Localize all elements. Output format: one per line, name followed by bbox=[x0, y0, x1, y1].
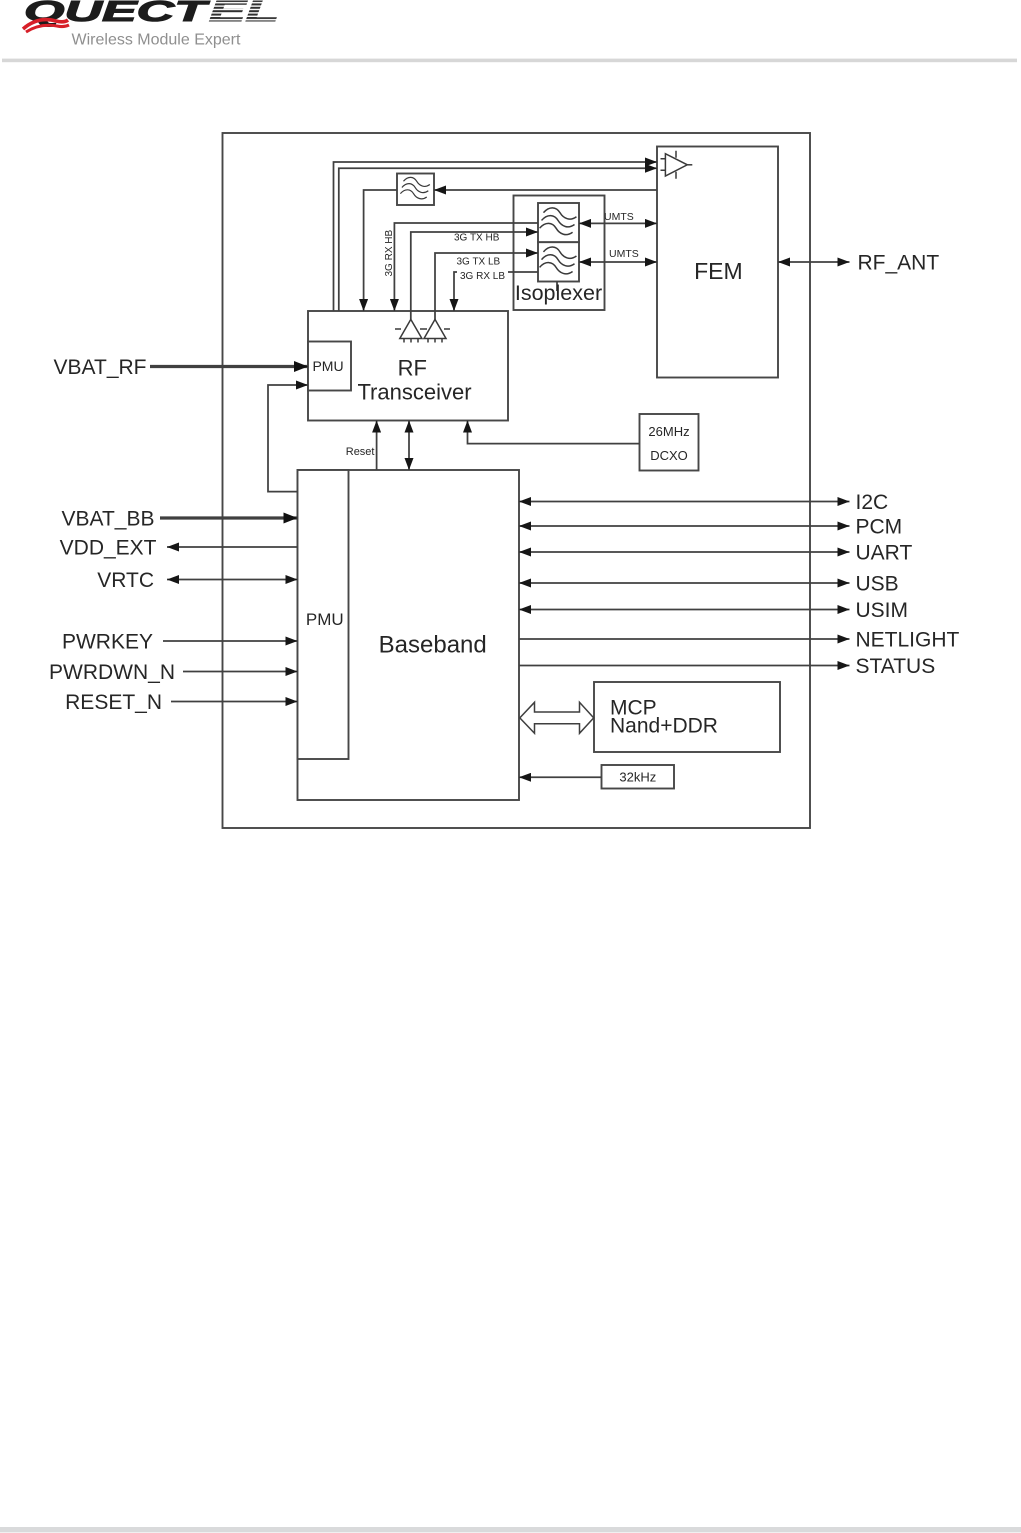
svg-text:VDD_EXT: VDD_EXT bbox=[60, 537, 157, 560]
svg-text:PWRKEY: PWRKEY bbox=[62, 631, 153, 654]
svg-text:UMTS: UMTS bbox=[609, 248, 639, 260]
svg-text:Transceiver: Transceiver bbox=[357, 380, 471, 405]
svg-text:USIM: USIM bbox=[856, 599, 909, 622]
svg-text:STATUS: STATUS bbox=[856, 655, 936, 678]
svg-text:QUECT: QUECT bbox=[24, 0, 210, 28]
svg-text:Reset: Reset bbox=[346, 446, 375, 458]
svg-text:USB: USB bbox=[856, 573, 899, 596]
svg-text:3G TX LB: 3G TX LB bbox=[457, 257, 501, 268]
svg-text:26MHz: 26MHz bbox=[648, 424, 689, 439]
svg-text:Wireless Module Expert: Wireless Module Expert bbox=[72, 32, 242, 49]
svg-text:VBAT_RF: VBAT_RF bbox=[54, 356, 147, 379]
svg-text:PMU: PMU bbox=[306, 610, 344, 629]
svg-text:PWRDWN_N: PWRDWN_N bbox=[49, 661, 175, 684]
svg-text:EL: EL bbox=[209, 0, 279, 28]
svg-text:FEM: FEM bbox=[694, 258, 743, 284]
svg-text:RF_ANT: RF_ANT bbox=[858, 252, 940, 275]
svg-text:VRTC: VRTC bbox=[97, 569, 154, 592]
svg-text:NETLIGHT: NETLIGHT bbox=[856, 629, 960, 652]
svg-text:RF: RF bbox=[398, 356, 427, 381]
svg-text:3G RX HB: 3G RX HB bbox=[384, 229, 395, 276]
svg-text:PMU: PMU bbox=[312, 358, 343, 374]
svg-text:UMTS: UMTS bbox=[604, 211, 634, 223]
svg-text:Baseband: Baseband bbox=[379, 632, 487, 659]
svg-text:DCXO: DCXO bbox=[650, 448, 688, 463]
svg-text:3G TX HB: 3G TX HB bbox=[454, 233, 500, 244]
svg-text:3G RX LB: 3G RX LB bbox=[460, 271, 505, 282]
svg-text:RESET_N: RESET_N bbox=[65, 691, 162, 714]
svg-text:Isoplexer: Isoplexer bbox=[515, 281, 602, 305]
svg-text:VBAT_BB: VBAT_BB bbox=[62, 508, 155, 531]
svg-text:I2C: I2C bbox=[856, 491, 889, 514]
svg-text:32kHz: 32kHz bbox=[619, 770, 656, 785]
svg-text:PCM: PCM bbox=[856, 516, 903, 539]
svg-text:UART: UART bbox=[856, 542, 913, 565]
svg-text:Nand+DDR: Nand+DDR bbox=[610, 715, 718, 738]
